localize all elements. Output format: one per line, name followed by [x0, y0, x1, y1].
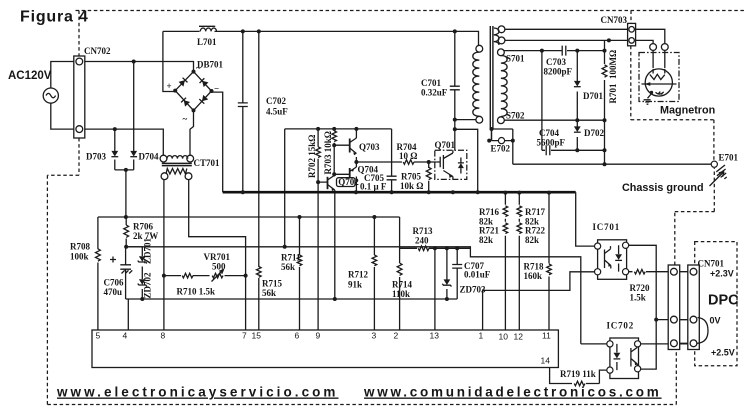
transistor Q704 — [347, 167, 357, 183]
wire: rail 217 corner down to R713 node — [399, 217, 401, 263]
svg-text:Q703: Q703 — [359, 142, 380, 152]
wire: core to E702 — [491, 130, 493, 141]
wire: D703/D704 common bottom — [115, 170, 134, 217]
transformer T701 core — [490, 26, 493, 130]
transformer T701 filament winding — [494, 26, 505, 45]
svg-text:82k: 82k — [525, 235, 539, 245]
wire: S702 rail — [501, 119, 605, 121]
resistor R704 — [403, 160, 414, 165]
inductor L701 — [199, 26, 216, 31]
wire: 0V row — [656, 319, 690, 321]
svg-text:R718: R718 — [524, 262, 544, 272]
capacitor C701 — [450, 86, 460, 90]
IGBT Q701 — [435, 150, 467, 179]
label Q702 boxed — [337, 177, 360, 187]
svg-text:0.1 μ F: 0.1 μ F — [360, 182, 387, 192]
diode D701 — [574, 81, 581, 87]
wire: bus end down to IC701 pin — [576, 192, 595, 246]
wire: Q703 collector — [355, 129, 357, 138]
wire: chassis ground run to E701 — [513, 163, 712, 165]
svg-text:9: 9 — [316, 331, 321, 341]
wire: ZD701 ZD702 column — [141, 247, 143, 299]
svg-text:+: + — [167, 81, 172, 91]
svg-text:C703: C703 — [546, 57, 566, 67]
svg-text:R701 100MΩ: R701 100MΩ — [608, 50, 618, 104]
svg-text:0V: 0V — [710, 316, 721, 326]
svg-text:160k: 160k — [524, 271, 543, 281]
svg-text:14: 14 — [541, 356, 551, 366]
wire: 0V drop to IC702 lower right — [641, 320, 656, 370]
svg-text:0.01uF: 0.01uF — [464, 270, 491, 280]
svg-text:www.electronicayservicio.com: www.electronicayservicio.com — [56, 385, 339, 400]
wire: R713 in Vcc-to-node row — [400, 247, 471, 249]
svg-text:10k Ω: 10k Ω — [400, 181, 423, 191]
svg-text:470u: 470u — [104, 287, 123, 297]
svg-text:E701: E701 — [719, 153, 739, 163]
wire: IC701 lower left pin to pin 1 — [483, 272, 595, 330]
optocoupler IC702 — [607, 338, 641, 379]
wire: Vcc rail 247 long run to IC702 — [124, 247, 606, 344]
wire: D701 D702 column — [576, 51, 578, 151]
svg-text:E702: E702 — [491, 144, 511, 154]
wire: C701 branch — [454, 31, 456, 119]
diode D702 — [574, 126, 581, 132]
wire: C702 branch — [242, 31, 244, 192]
svg-text:R713: R713 — [413, 226, 433, 236]
wire: R716 R721 column to pin 10 — [504, 192, 506, 330]
svg-text:R706: R706 — [133, 222, 153, 232]
wire: Q701 collector line — [454, 120, 456, 151]
transistor Q702 — [325, 176, 335, 192]
svg-text:7: 7 — [242, 331, 247, 341]
svg-text:R711: R711 — [281, 253, 301, 263]
connector CN701 — [668, 265, 708, 350]
svg-text:91k: 91k — [348, 280, 362, 290]
magnetron — [639, 53, 679, 105]
DPC dashed box — [695, 242, 737, 366]
wire: C701 bottom to transformer primary bottom — [455, 116, 480, 120]
connector CN703 — [628, 23, 636, 45]
wire: bridge + corner to top DC rail — [163, 31, 175, 91]
svg-text:C706: C706 — [104, 278, 124, 288]
resistor R706 — [124, 225, 129, 237]
connector CN702 — [74, 56, 85, 138]
wire: rail 217 sense line — [98, 216, 400, 218]
zener ZD703 — [442, 279, 451, 286]
IC700 main control box — [92, 330, 558, 368]
svg-text:0.32uF: 0.32uF — [421, 88, 448, 98]
IC pin numbers — [96, 331, 552, 366]
svg-text:AC120V: AC120V — [8, 70, 52, 82]
dashed border left drop through CN702 — [47, 11, 79, 405]
dashed bottom border — [47, 404, 676, 406]
svg-text:8200pF: 8200pF — [544, 67, 573, 77]
svg-text:Q701: Q701 — [435, 140, 456, 150]
svg-text:S701: S701 — [506, 54, 525, 64]
svg-text:10: 10 — [499, 332, 509, 342]
diode D703 — [111, 151, 118, 157]
svg-text:R710 1.5k: R710 1.5k — [177, 287, 216, 297]
svg-text:10 Ω: 10 Ω — [399, 151, 417, 161]
resistor R717 — [517, 206, 522, 217]
svg-text:D701: D701 — [583, 91, 603, 101]
resistor R713 — [418, 246, 429, 251]
svg-text:IC701: IC701 — [593, 222, 621, 232]
svg-text:2: 2 — [394, 331, 399, 341]
resistor R708 — [96, 249, 101, 261]
svg-text:www.comunidadelectronicos.com: www.comunidadelectronicos.com — [363, 385, 662, 400]
resistor R719 — [574, 381, 585, 386]
svg-text:110k: 110k — [392, 289, 410, 299]
svg-text:Q702: Q702 — [338, 177, 359, 187]
wire: pin 13 column — [434, 248, 436, 330]
svg-text:+2.3V: +2.3V — [710, 269, 734, 279]
svg-text:Figura 4: Figura 4 — [20, 9, 89, 26]
diode D704 — [130, 151, 137, 157]
wire: Q704 collector to bus — [355, 177, 357, 193]
svg-text:56k: 56k — [262, 288, 276, 298]
resistor R710 — [182, 273, 193, 278]
capacitor C707 — [452, 265, 462, 269]
wire: ZD703 branch — [446, 248, 448, 299]
wire: C706 branch — [124, 247, 142, 299]
wire: R715 feed line from DC+ down to pin 15 — [258, 31, 260, 330]
svg-text:Magnetron: Magnetron — [660, 105, 715, 117]
resistor R711 — [297, 255, 302, 266]
wire: transformer S701 rail with C703 in series — [501, 50, 605, 52]
svg-text:ZD702: ZD702 — [143, 272, 153, 299]
wire: R718 column to pin 11 — [548, 192, 550, 330]
svg-text:15: 15 — [252, 331, 262, 341]
svg-text:S702: S702 — [506, 111, 525, 121]
svg-text:1: 1 — [479, 331, 484, 341]
svg-text:D704: D704 — [139, 152, 159, 162]
svg-text:ZD703: ZD703 — [460, 285, 487, 295]
wire: IC702 upper right to CN701 — [641, 343, 690, 345]
svg-text:CT701: CT701 — [194, 158, 221, 168]
svg-text:~: ~ — [196, 63, 201, 73]
svg-text:VR701: VR701 — [204, 252, 231, 262]
wire: Q702 emitter drop to low rail — [334, 190, 336, 299]
wire: R714 column to pin 2 — [399, 277, 401, 330]
svg-text:100k: 100k — [70, 252, 89, 262]
svg-text:CN702: CN702 — [84, 46, 111, 56]
svg-text:DB701: DB701 — [197, 60, 224, 70]
svg-text:L701: L701 — [197, 37, 217, 47]
svg-text:R702 15kΩ: R702 15kΩ — [307, 135, 317, 178]
potentiometer VR701 — [212, 270, 224, 282]
wire: VR701 row — [164, 275, 246, 277]
AC source — [43, 88, 58, 103]
svg-text:D703: D703 — [86, 152, 106, 162]
wire: top DC+ rail with L701 gap — [163, 31, 479, 48]
svg-text:DPC: DPC — [708, 293, 739, 309]
svg-text:C702: C702 — [266, 96, 286, 106]
dashed line CN703 down to magnetron ground corner — [631, 46, 714, 162]
svg-text:~: ~ — [183, 114, 188, 124]
resistor R703 — [332, 131, 337, 142]
wire: R717 R722 column to pin 12 — [518, 192, 520, 330]
wire: driver output row to R704 and Q701 gate — [356, 157, 436, 192]
svg-text:R708: R708 — [70, 242, 90, 252]
wire: IC702 lower left to R719 to pin 14 — [550, 368, 607, 384]
resistor R722 — [517, 223, 522, 234]
svg-text:240: 240 — [415, 236, 429, 246]
svg-text:82k: 82k — [479, 235, 493, 245]
wire: bridge - corner to thick bus — [211, 92, 223, 192]
wire: driver box left edge down to Vcc rail — [284, 129, 286, 247]
svg-text:R716: R716 — [479, 207, 499, 217]
svg-text:R722: R722 — [525, 226, 545, 236]
resistor R714 — [397, 263, 402, 275]
wire: AC live from CN702 top to bridge ~ top corner — [85, 62, 194, 72]
terminal E702 — [498, 138, 504, 144]
resistor R701 — [602, 65, 607, 77]
capacitor C706 electrolytic — [110, 257, 132, 274]
wire: R706 column — [125, 217, 127, 247]
svg-text:3: 3 — [372, 331, 377, 341]
svg-text:+2.5V: +2.5V — [711, 348, 735, 358]
svg-text:R720: R720 — [630, 283, 650, 293]
svg-text:12: 12 — [514, 332, 524, 342]
svg-text:IC702: IC702 — [607, 321, 635, 331]
svg-text:R719 11k: R719 11k — [560, 369, 596, 379]
svg-text:5600pF: 5600pF — [537, 138, 566, 148]
wire: D703 branch — [114, 129, 116, 170]
zener ZD702 — [138, 279, 147, 286]
svg-text:4: 4 — [123, 331, 128, 341]
wire: magnetron leads — [653, 51, 665, 69]
current transformer CT701 — [160, 155, 194, 179]
wire: E702 net from CT701 core to bus area — [492, 129, 513, 164]
svg-text:R705: R705 — [401, 172, 421, 182]
wire: CT701 secondary right jog to pin 7 column — [189, 177, 246, 331]
svg-text:500: 500 — [212, 262, 226, 272]
wire: R712 column to pin 3 — [373, 217, 375, 330]
wire: R702 branch and Q702 base / pin9 line — [318, 129, 324, 330]
svg-text:13: 13 — [430, 331, 440, 341]
svg-text:C704: C704 — [539, 128, 559, 138]
optocoupler IC701 — [595, 240, 629, 279]
resistor R702 — [316, 147, 321, 158]
wire: C707 branch — [456, 248, 458, 299]
magnetron terminals — [650, 44, 669, 51]
wire: R720 row — [629, 271, 670, 273]
capacitor C702 — [238, 103, 248, 107]
resistor R716 — [503, 206, 508, 217]
wire: filament wires to CN703 — [503, 29, 665, 43]
svg-text:CN701: CN701 — [698, 259, 725, 269]
wire: D704 branch — [133, 62, 135, 170]
transformer T701 secondary — [498, 49, 508, 124]
svg-text:R712: R712 — [348, 270, 368, 280]
dashed line CN703 to top border — [630, 11, 632, 24]
svg-text:5: 5 — [96, 331, 101, 341]
dashed enclosure top border — [76, 10, 746, 12]
resistor R718 — [547, 264, 552, 275]
wire: driver box right edge / C705 branch — [391, 129, 393, 192]
resistor R715 — [257, 267, 262, 278]
svg-text:R717: R717 — [525, 207, 545, 217]
wire: R708 column to pin 5 — [97, 217, 99, 330]
wire: CT701 secondary left to VR row to pin 8 — [163, 177, 165, 331]
svg-text:Chassis ground: Chassis ground — [622, 182, 704, 194]
capacitor C705 — [387, 176, 397, 180]
wire: bridge bottom to CT701 primary right — [190, 111, 194, 156]
bridge rectifier DB701 — [173, 70, 213, 113]
svg-text:D702: D702 — [584, 128, 604, 138]
wire: C704 branch — [542, 51, 605, 151]
capacitor C704 series — [546, 145, 550, 155]
wire: driver box top rail — [285, 128, 392, 130]
svg-text:R721: R721 — [479, 226, 499, 236]
wire: snubber return to bus — [455, 129, 478, 192]
svg-text:R703 10kΩ: R703 10kΩ — [323, 131, 333, 174]
transformer T701 primary — [473, 45, 483, 123]
wire: R701 column — [604, 40, 606, 164]
wire: AC source loop — [51, 62, 74, 130]
svg-text:4.5uF: 4.5uF — [266, 107, 288, 117]
wire: AC neutral from CN702 bottom to CT701 primary left — [85, 129, 163, 156]
svg-text:8: 8 — [161, 331, 166, 341]
resistor R720 — [634, 269, 645, 274]
capacitor C703 series — [562, 46, 566, 56]
svg-text:1.5k: 1.5k — [630, 293, 646, 303]
zener ZD701 — [138, 256, 147, 263]
transistor Q703 — [347, 138, 357, 155]
wire: R703 branch and base column — [334, 129, 346, 177]
wire: pin 4 stub — [127, 299, 129, 330]
thick common emitter bus — [223, 191, 576, 194]
svg-text:56k: 56k — [281, 262, 295, 272]
svg-text:R715: R715 — [262, 279, 282, 289]
svg-text:6: 6 — [295, 331, 300, 341]
svg-text:R714: R714 — [392, 280, 412, 290]
svg-text:11: 11 — [542, 331, 551, 341]
svg-text:C701: C701 — [421, 78, 441, 88]
svg-text:CN703: CN703 — [601, 15, 628, 25]
svg-text:−: − — [214, 84, 219, 94]
resistor R712 — [372, 255, 377, 266]
wire: IC701 upper right to 0V node — [629, 245, 656, 319]
dashed right border up from bottom to E701 corner — [675, 168, 715, 405]
terminal E701 — [711, 161, 717, 167]
resistor R705 — [426, 167, 431, 179]
wire: low rail 299 — [126, 298, 458, 300]
wire: R711 column to pin 6 — [299, 217, 301, 330]
resistor R721 — [503, 223, 508, 234]
chassis ground symbol — [710, 165, 732, 186]
svg-text:ZD701: ZD701 — [143, 237, 153, 264]
